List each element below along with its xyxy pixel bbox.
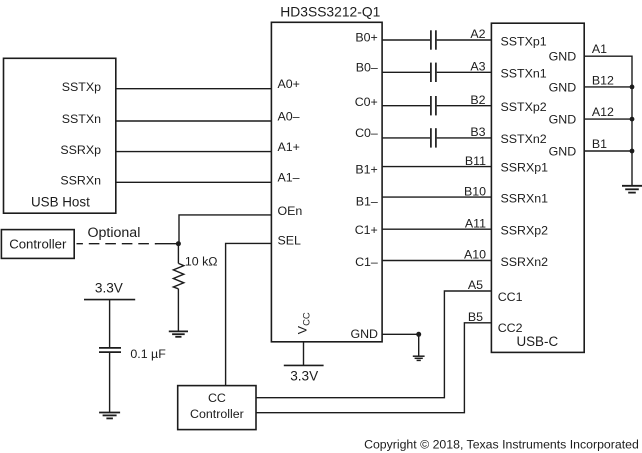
- capacitor C 0.1 uF: [99, 348, 121, 352]
- junction dot A12: [630, 117, 635, 122]
- op-amp U1 HD3SS3212-Q1 mux box: [271, 22, 382, 342]
- Controller box: [1, 230, 74, 259]
- CC Controller box: [178, 386, 256, 430]
- svg-text:B3: B3: [470, 125, 485, 139]
- svg-text:GND: GND: [549, 144, 577, 158]
- wire to junction: [155, 243, 178, 245]
- junction dot OEn/resistor: [176, 241, 181, 246]
- svg-text:USB-C: USB-C: [516, 334, 558, 349]
- wire cap to ground: [109, 353, 111, 412]
- svg-text:B1+: B1+: [355, 163, 377, 177]
- wire B0+ left of cap: [382, 39, 430, 41]
- svg-text:A2: A2: [470, 27, 485, 41]
- wire B0- left of cap: [382, 71, 430, 73]
- svg-text:B2: B2: [470, 93, 485, 107]
- ground below right bus: [622, 186, 642, 193]
- wire C0- left of cap: [382, 137, 430, 139]
- svg-text:Controller: Controller: [9, 236, 67, 251]
- wire junction to resistor: [177, 244, 179, 264]
- junction dot mux GND: [416, 332, 421, 337]
- wire B1- B10: [382, 196, 491, 198]
- svg-text:A5: A5: [468, 278, 483, 292]
- svg-text:C0–: C0–: [355, 126, 378, 140]
- svg-text:A11: A11: [465, 216, 486, 230]
- wire A3 right of cap: [437, 71, 492, 73]
- svg-text:GND: GND: [549, 80, 577, 94]
- svg-text:B11: B11: [465, 154, 486, 168]
- wire CC1 A5: [256, 291, 491, 398]
- power rail 3.3V under mux: [284, 364, 324, 366]
- wire A1 GND to bus: [584, 56, 632, 185]
- svg-text:A0–: A0–: [278, 109, 300, 123]
- wire SEL: [226, 243, 272, 385]
- capacitor on B0+/SSTXp1: [431, 30, 436, 49]
- svg-text:USB Host: USB Host: [31, 194, 90, 209]
- svg-text:C1+: C1+: [355, 223, 378, 237]
- wire A2 right of cap: [437, 39, 492, 41]
- junction dot B1: [630, 149, 635, 154]
- wire rail to cap: [109, 300, 111, 347]
- capacitor on B0-/SSTXn1: [431, 63, 436, 82]
- ground below 0.1uF cap: [99, 413, 120, 419]
- wire mux GND: [382, 333, 419, 335]
- svg-text:B12: B12: [592, 73, 614, 87]
- svg-text:OEn: OEn: [278, 204, 303, 218]
- wire B1+ B11: [382, 166, 491, 168]
- wire Optional dashed: [77, 243, 157, 245]
- svg-text:A1–: A1–: [278, 171, 300, 185]
- wire B2 right of cap: [437, 105, 492, 107]
- svg-text:Controller: Controller: [190, 407, 244, 421]
- svg-text:SEL: SEL: [278, 233, 302, 247]
- wire resistor to ground: [177, 289, 179, 331]
- svg-text:SSRXp2: SSRXp2: [501, 224, 549, 238]
- svg-text:A12: A12: [592, 105, 614, 119]
- svg-text:C1–: C1–: [355, 255, 378, 269]
- svg-text:0.1 µF: 0.1 µF: [130, 347, 166, 361]
- ground below mux GND: [413, 356, 425, 360]
- wire OEn: [179, 215, 271, 244]
- USB-C connector box: [491, 23, 584, 352]
- ground below resistor: [169, 331, 188, 336]
- svg-text:B5: B5: [468, 310, 483, 324]
- svg-text:10 kΩ: 10 kΩ: [185, 254, 218, 268]
- svg-text:A3: A3: [470, 60, 485, 74]
- svg-text:SSRXn: SSRXn: [60, 174, 101, 188]
- capacitor on C0+/SSTXp2: [431, 96, 436, 115]
- wire CC2 B5: [256, 323, 491, 413]
- capacitor on C0-/SSTXn2: [431, 128, 436, 147]
- resistor R1 10 kOhm: [173, 263, 183, 288]
- svg-text:SSRXp1: SSRXp1: [501, 160, 549, 174]
- svg-text:GND: GND: [549, 50, 577, 64]
- wire VCC pin: [303, 342, 305, 366]
- svg-text:B0–: B0–: [356, 60, 378, 74]
- svg-text:B1: B1: [592, 137, 607, 151]
- wire SSRXn to A1-: [116, 181, 272, 183]
- svg-text:SSTXp2: SSTXp2: [501, 100, 547, 114]
- svg-text:SSTXp1: SSTXp1: [501, 34, 547, 48]
- svg-text:SSRXp: SSRXp: [60, 143, 101, 157]
- svg-text:A1+: A1+: [278, 140, 300, 154]
- svg-text:CC2: CC2: [498, 321, 523, 335]
- svg-text:SSRXn2: SSRXn2: [501, 255, 549, 269]
- power rail 3.3V left: [84, 299, 135, 301]
- svg-text:A1: A1: [592, 42, 607, 56]
- wire SSRXp to A1+: [116, 151, 272, 153]
- svg-text:3.3V: 3.3V: [290, 368, 318, 383]
- svg-text:Copyright © 2018, Texas Instru: Copyright © 2018, Texas Instruments Inco…: [364, 438, 639, 452]
- USB Host box: [4, 58, 116, 213]
- svg-text:GND: GND: [549, 113, 577, 127]
- svg-text:B1–: B1–: [356, 195, 378, 209]
- svg-text:SSRXn1: SSRXn1: [501, 191, 549, 205]
- wire A12 GND: [584, 118, 632, 120]
- wire B1 GND: [584, 150, 632, 152]
- svg-text:SSTXn1: SSTXn1: [501, 67, 547, 81]
- svg-text:CC1: CC1: [498, 290, 523, 304]
- svg-text:SSTXp: SSTXp: [62, 80, 101, 94]
- wire SSTXn to A0-: [116, 120, 272, 122]
- wire C0+ left of cap: [382, 105, 430, 107]
- svg-text:CC: CC: [208, 391, 226, 405]
- wire C1+ A11: [382, 228, 491, 230]
- wire B12 GND: [584, 86, 632, 88]
- svg-text:SSTXn: SSTXn: [62, 112, 101, 126]
- svg-text:A0+: A0+: [278, 77, 300, 91]
- svg-text:Optional: Optional: [88, 225, 141, 241]
- wire B3 right of cap: [437, 137, 492, 139]
- svg-text:B0+: B0+: [355, 31, 377, 45]
- svg-text:SSTXn2: SSTXn2: [501, 132, 547, 146]
- junction dot B12: [630, 85, 635, 90]
- wire SSTXp to A0+: [116, 88, 272, 90]
- wire C1- A10: [382, 260, 491, 262]
- svg-text:3.3V: 3.3V: [95, 281, 123, 296]
- wire GND down: [418, 334, 420, 356]
- svg-text:B10: B10: [464, 184, 486, 198]
- svg-text:HD3SS3212-Q1: HD3SS3212-Q1: [280, 4, 380, 20]
- svg-text:C0+: C0+: [355, 95, 378, 109]
- svg-text:GND: GND: [350, 327, 378, 341]
- svg-text:A10: A10: [464, 248, 486, 262]
